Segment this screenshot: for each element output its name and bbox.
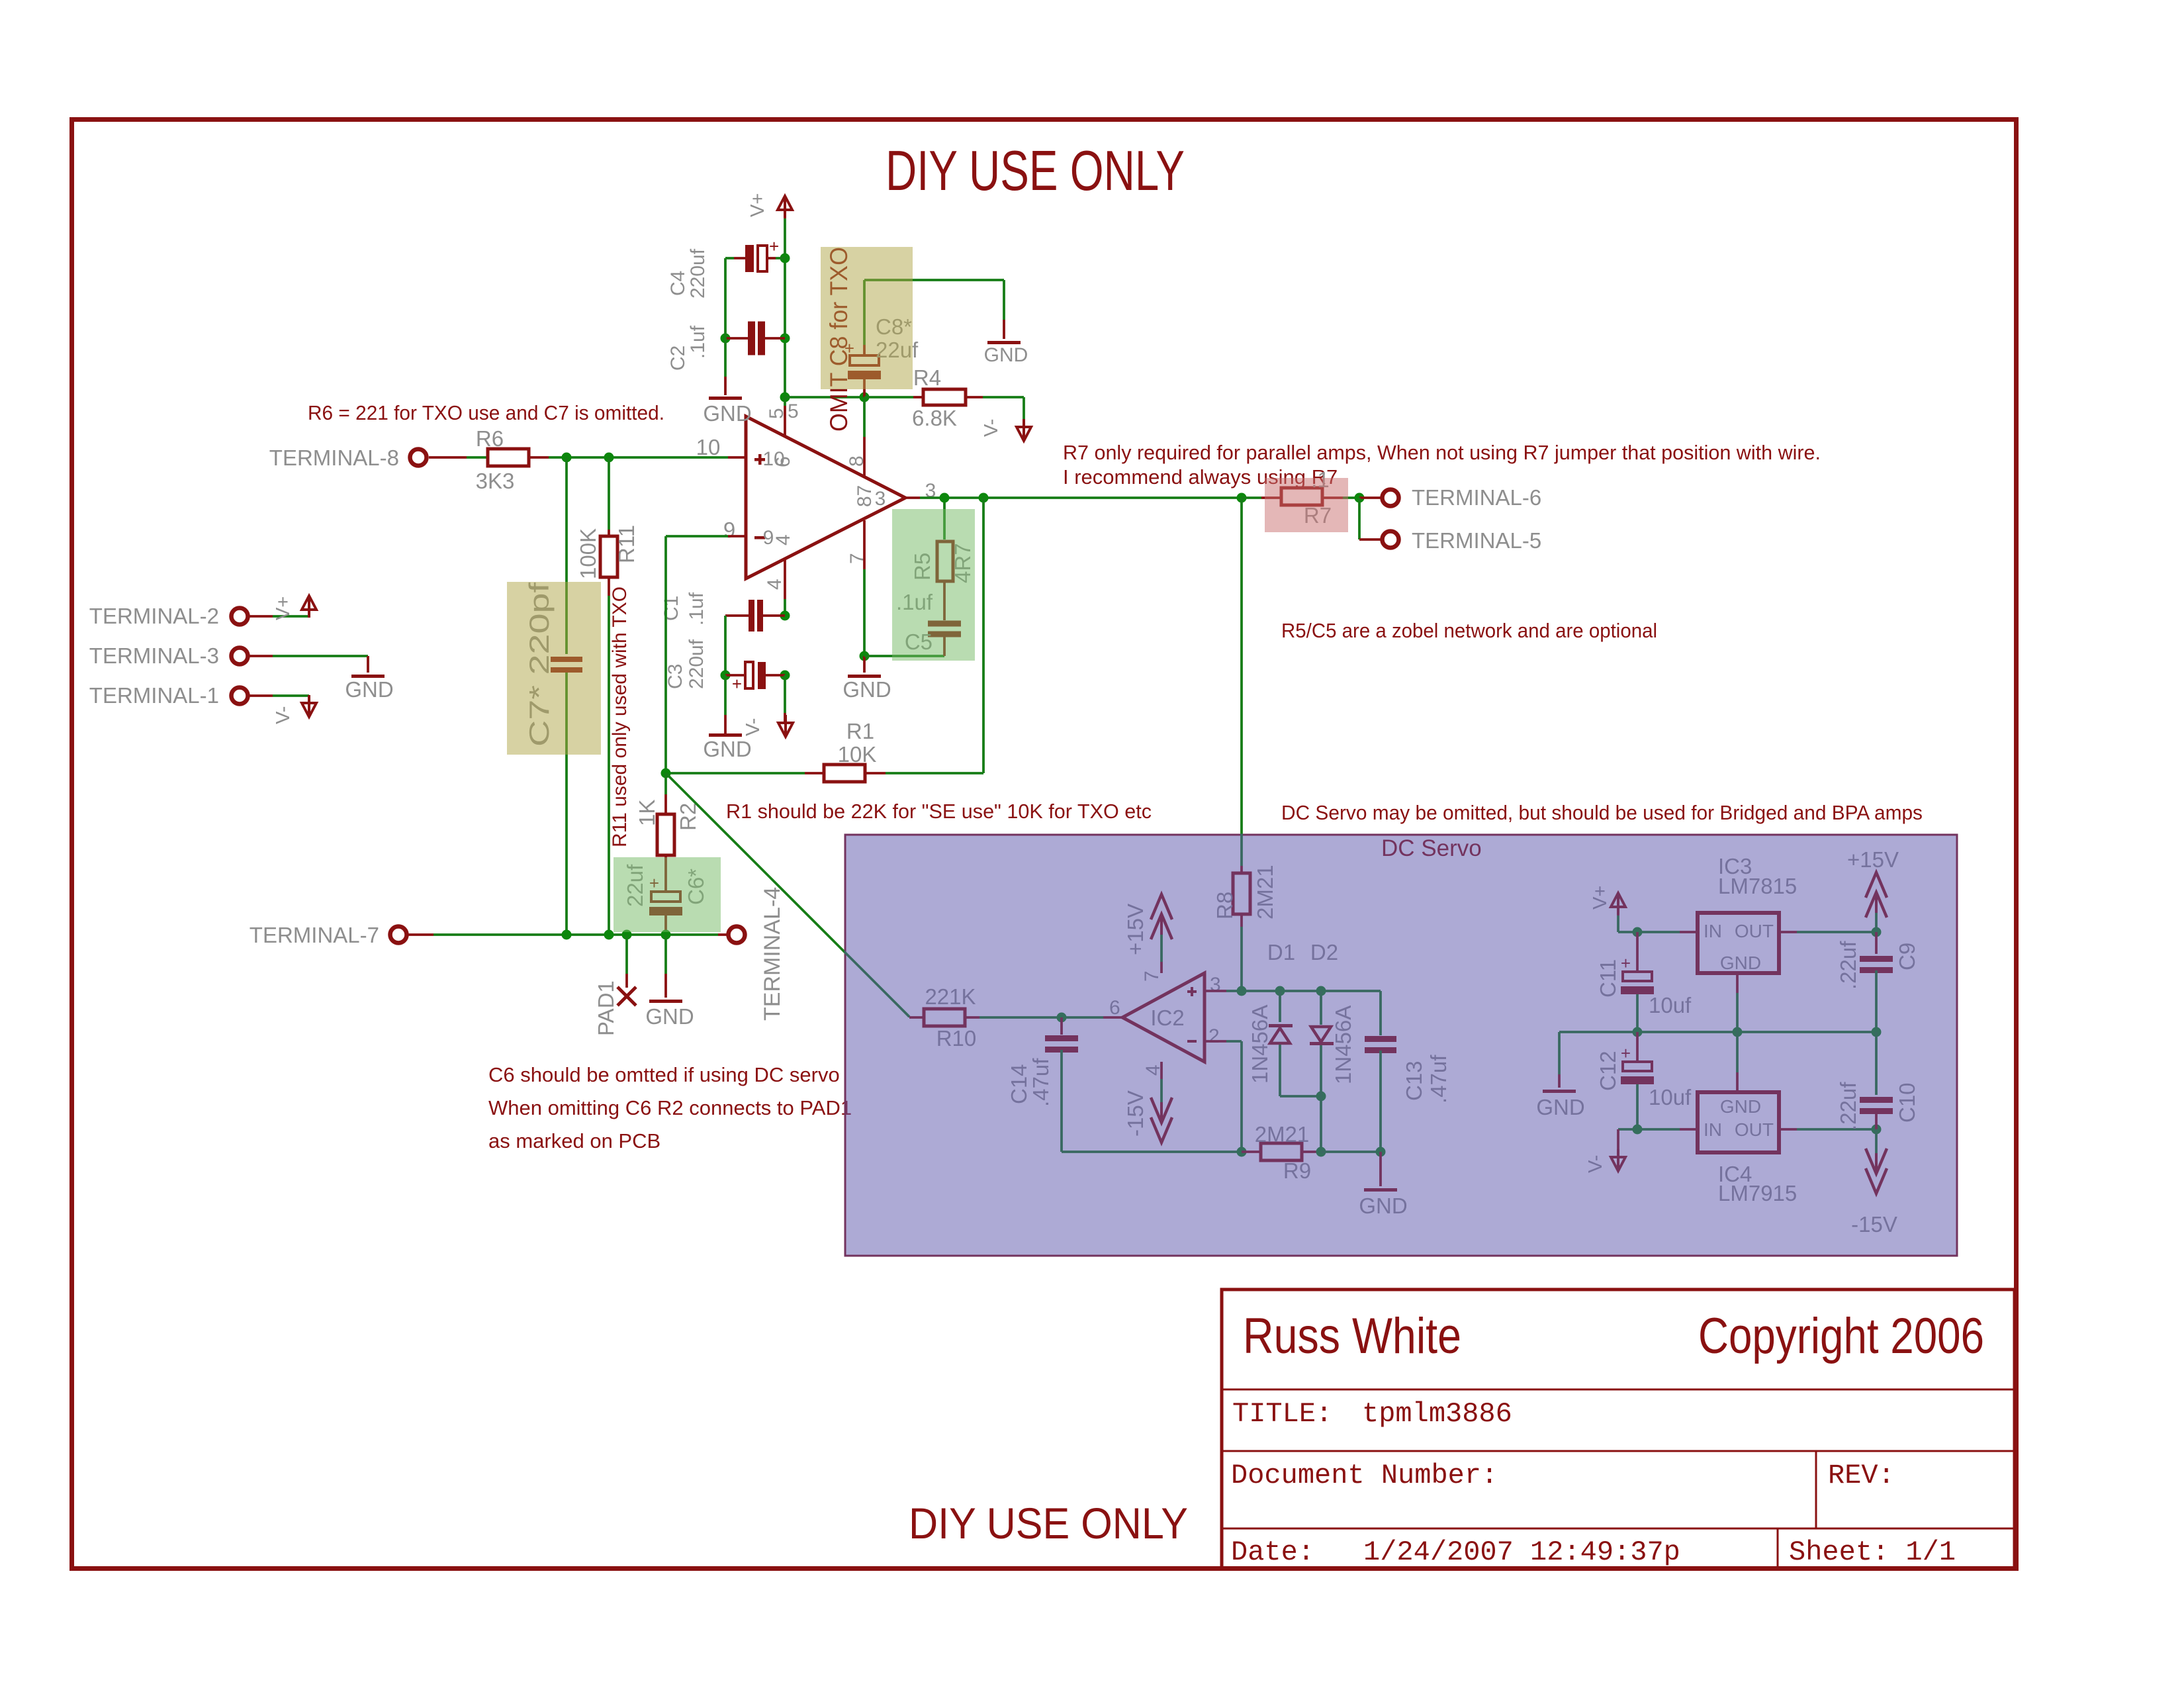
svg-text:GND: GND bbox=[345, 677, 393, 702]
wire C1 left rail bbox=[724, 616, 727, 675]
V- symbol T1 bbox=[308, 696, 310, 703]
terminal TERMINAL-8 bbox=[410, 449, 427, 466]
ground GND servo bbox=[1379, 1152, 1382, 1186]
capacitor C7 bbox=[551, 657, 582, 662]
svg-text:100K: 100K bbox=[576, 528, 600, 579]
junction pin3 D2 bbox=[1316, 986, 1326, 996]
svg-text:DC Servo may be omitted, but s: DC Servo may be omitted, but should be u… bbox=[1281, 801, 1923, 824]
wire C7 to bottom rail bbox=[565, 673, 568, 935]
ground GND rail bbox=[1543, 1090, 1576, 1093]
wire IC4 gnd pin bbox=[1736, 1072, 1739, 1092]
terminal TERMINAL-2 bbox=[232, 608, 248, 625]
junction out C9 bbox=[1872, 927, 1882, 937]
junction pin7 gnd bbox=[860, 651, 870, 661]
junction D2 bottom bbox=[1316, 1092, 1326, 1102]
svg-text:Russ White: Russ White bbox=[1243, 1308, 1461, 1364]
junction out servo bbox=[1237, 493, 1247, 503]
capacitor C13 bbox=[1365, 1036, 1396, 1042]
capacitor C2 .1uf bbox=[725, 337, 749, 340]
svg-text:GND: GND bbox=[984, 344, 1028, 366]
svg-text:Sheet: 1/1: Sheet: 1/1 bbox=[1789, 1536, 1956, 1568]
+15V arrow out bbox=[1875, 913, 1878, 932]
wire R2 top bbox=[664, 773, 667, 794]
wire D1 bottom bbox=[1279, 1045, 1281, 1096]
junction fb R9 bbox=[1237, 1147, 1247, 1157]
svg-text:REV:: REV: bbox=[1828, 1460, 1895, 1491]
V+ symbol servo bbox=[1611, 893, 1625, 907]
border frame bbox=[72, 120, 2017, 1569]
svg-text:DIY USE ONLY: DIY USE ONLY bbox=[909, 1499, 1188, 1548]
junction rail C7 bbox=[562, 930, 572, 940]
V- symbol servo bbox=[1617, 1129, 1619, 1155]
wire V- to IC4 bbox=[1618, 1128, 1680, 1131]
svg-text:5: 5 bbox=[788, 400, 799, 422]
wire pin4 down bbox=[784, 558, 786, 599]
resistor R10 bbox=[924, 1009, 965, 1026]
terminal TERMINAL-6 bbox=[1383, 490, 1399, 506]
junction out fb bbox=[979, 493, 989, 503]
wire R4 to V- bbox=[966, 396, 983, 399]
wire bottom rail bbox=[408, 933, 433, 936]
junction C11 top bbox=[1633, 927, 1643, 937]
svg-text:V-: V- bbox=[743, 718, 764, 736]
svg-text:GND: GND bbox=[645, 1004, 694, 1029]
wire rail to GND bbox=[1558, 1032, 1561, 1074]
wire V+ to C8 node bbox=[785, 396, 864, 399]
resistor R9 bbox=[1242, 1150, 1261, 1153]
IC2 plus bbox=[1187, 990, 1197, 993]
V- symbol pin4 bbox=[778, 723, 793, 737]
svg-text:4: 4 bbox=[772, 534, 794, 545]
svg-text:TERMINAL-8: TERMINAL-8 bbox=[269, 445, 399, 470]
ground GND C2C4 bbox=[709, 397, 742, 400]
V+ symbol T2 bbox=[308, 611, 310, 616]
wire C3 left to GND bbox=[724, 675, 727, 715]
wire node B down to R11 bbox=[608, 457, 610, 530]
svg-text:C1: C1 bbox=[660, 596, 682, 621]
wire R1 row right bbox=[865, 772, 886, 774]
svg-text:R1 should be 22K for "SE use": R1 should be 22K for "SE use" 10K for TX… bbox=[726, 800, 1152, 823]
svg-text:R1: R1 bbox=[846, 719, 874, 743]
-15V arrow out bbox=[1875, 1129, 1878, 1153]
svg-text:tpmlm3886: tpmlm3886 bbox=[1362, 1398, 1512, 1430]
junction node B bbox=[604, 453, 614, 463]
resistor R7 bbox=[1242, 496, 1261, 499]
ground GND C6 bbox=[649, 1000, 682, 1003]
junction C14 bbox=[1057, 1013, 1067, 1023]
regulator IC3 bbox=[1698, 913, 1779, 973]
wire to T5 bbox=[1358, 498, 1361, 539]
terminal TERMINAL-7 bbox=[390, 927, 407, 943]
title block frame bbox=[1222, 1289, 2015, 1568]
junction C2 left bbox=[721, 334, 731, 344]
junction rail C9 bbox=[1872, 1027, 1882, 1037]
highlight C7 box bbox=[507, 582, 601, 755]
junction V+ pin5 bbox=[780, 393, 790, 402]
svg-text:V-: V- bbox=[981, 419, 1002, 437]
svg-text:+: + bbox=[732, 674, 742, 694]
svg-text:R6 = 221 for TXO use and C7 is: R6 = 221 for TXO use and C7 is omitted. bbox=[308, 401, 664, 424]
wire IC3 gnd pin bbox=[1736, 973, 1739, 993]
svg-text:4: 4 bbox=[764, 579, 786, 590]
junction C3 right bbox=[780, 671, 790, 680]
wire R11 to bottom rail bbox=[608, 577, 610, 596]
svg-text:PAD1: PAD1 bbox=[594, 980, 618, 1036]
svg-text:R7 only required for parallel: R7 only required for parallel amps, When… bbox=[1063, 441, 1821, 464]
highlight DC servo box bbox=[844, 834, 1958, 1257]
svg-text:C2: C2 bbox=[667, 346, 689, 371]
svg-text:V-: V- bbox=[273, 706, 294, 724]
svg-text:+: + bbox=[769, 236, 779, 256]
svg-text:TERMINAL-4: TERMINAL-4 bbox=[760, 887, 785, 1021]
svg-text:TERMINAL-2: TERMINAL-2 bbox=[89, 604, 219, 628]
highlight R5C5 box bbox=[892, 509, 975, 661]
svg-text:R4: R4 bbox=[913, 365, 941, 390]
wire R2 to C6 bbox=[664, 855, 667, 893]
highlight C6 box bbox=[614, 857, 721, 932]
wire servo fb rail bbox=[1062, 1150, 1242, 1153]
wire C8 top to GND bbox=[863, 280, 866, 345]
svg-text:When omitting C6 R2 connects t: When omitting C6 R2 connects to PAD1 bbox=[488, 1096, 852, 1119]
junction R2 top bbox=[661, 769, 671, 778]
svg-text:R2: R2 bbox=[676, 803, 700, 831]
terminal TERMINAL-3 bbox=[232, 648, 248, 665]
svg-text:Date:: Date: bbox=[1231, 1536, 1314, 1568]
svg-text:1/24/2007 12:49:37p: 1/24/2007 12:49:37p bbox=[1363, 1536, 1680, 1568]
wire R5 to C5 bbox=[943, 581, 946, 620]
regulator IC4 bbox=[1698, 1092, 1779, 1152]
svg-text:V+: V+ bbox=[273, 596, 294, 620]
+15V arrow IC2 bbox=[1151, 894, 1172, 919]
svg-text:87: 87 bbox=[854, 485, 876, 507]
wire V+ to IC3 bbox=[1617, 915, 1619, 932]
svg-text:R11: R11 bbox=[614, 525, 639, 563]
resistor R6 bbox=[488, 449, 529, 466]
diode D2 bbox=[1320, 991, 1322, 1025]
svg-text:6: 6 bbox=[772, 456, 794, 467]
svg-text:.1uf: .1uf bbox=[686, 592, 707, 626]
V+ symbol top bbox=[778, 196, 792, 210]
junction pin3 D1 bbox=[1275, 986, 1285, 996]
wire T2 to V+ bbox=[249, 615, 273, 618]
resistor R1 bbox=[824, 765, 865, 782]
junction node A bbox=[562, 453, 572, 463]
wire IC4 out bbox=[1779, 1128, 1797, 1131]
svg-text:TERMINAL-5: TERMINAL-5 bbox=[1412, 528, 1541, 553]
V- symbol R4 bbox=[1017, 427, 1031, 441]
svg-text:V+: V+ bbox=[747, 193, 768, 217]
junction pin3 R8 bbox=[1237, 986, 1247, 996]
wire IC3 out bbox=[1779, 931, 1797, 933]
wire R8 to pin3 bbox=[1240, 914, 1243, 927]
svg-text:C6 should be omtted if using D: C6 should be omtted if using DC servo bbox=[488, 1063, 840, 1086]
svg-text:TERMINAL-6: TERMINAL-6 bbox=[1412, 485, 1541, 510]
wire feedback down bbox=[982, 498, 985, 773]
junction pin4 C1 bbox=[780, 611, 790, 621]
wire D2 to rail bbox=[1320, 1045, 1322, 1096]
resistor R2 bbox=[657, 814, 674, 855]
ground GND pin7 bbox=[863, 656, 866, 673]
svg-text:GND: GND bbox=[842, 677, 891, 702]
resistor R4 bbox=[864, 396, 913, 399]
wire R9 to C13 bbox=[1321, 1150, 1381, 1153]
ground GND C8 bbox=[987, 341, 1021, 344]
wire C3 right to V- bbox=[784, 675, 786, 713]
wire IC2 pin2 bbox=[1205, 1040, 1226, 1043]
diode D1 bbox=[1279, 991, 1281, 1022]
svg-text:TERMINAL-3: TERMINAL-3 bbox=[89, 643, 219, 668]
capacitor C3 220uf bbox=[725, 674, 745, 677]
terminal TERMINAL-5 bbox=[1383, 532, 1399, 548]
resistor R5 bbox=[937, 541, 953, 581]
junction C13 gnd bbox=[1376, 1147, 1386, 1157]
wire T1 to V- bbox=[249, 694, 273, 697]
wire R1 row left bbox=[666, 772, 805, 774]
wire pin9 bbox=[728, 535, 746, 538]
pad PAD1 cross bbox=[617, 987, 636, 1006]
wire PAD1 bbox=[625, 935, 628, 974]
svg-text:R11 used only used with TXO: R11 used only used with TXO bbox=[609, 586, 631, 847]
opamp plus sign bbox=[754, 458, 765, 461]
svg-text:R5/C5 are a zobel network and: R5/C5 are a zobel network and are option… bbox=[1281, 619, 1657, 642]
wire diagonal to R10 bbox=[666, 773, 909, 1017]
capacitor C9 bbox=[1875, 932, 1878, 954]
junction V+ C2 bbox=[780, 334, 790, 344]
wire T8 to R6 bbox=[429, 456, 467, 459]
svg-text:10: 10 bbox=[696, 435, 721, 459]
resistor R11 bbox=[600, 536, 617, 577]
svg-text:C3: C3 bbox=[664, 664, 686, 689]
svg-text:TERMINAL-1: TERMINAL-1 bbox=[89, 683, 219, 708]
svg-text:Document Number:: Document Number: bbox=[1231, 1460, 1498, 1491]
DC Servo box border bbox=[845, 835, 1957, 1256]
svg-text:GND: GND bbox=[703, 401, 751, 426]
wire output to R5 bbox=[943, 498, 946, 539]
wire C6 gnd bbox=[664, 935, 667, 974]
svg-text:1K: 1K bbox=[635, 800, 659, 826]
svg-text:3K3: 3K3 bbox=[476, 469, 515, 493]
junction rail C6 bbox=[661, 930, 671, 940]
capacitor C4 220uf bbox=[725, 257, 734, 259]
junction rail gndpin bbox=[1733, 1027, 1743, 1037]
wire pin5 bbox=[784, 397, 786, 406]
svg-text:3: 3 bbox=[875, 488, 886, 510]
junction C3 left bbox=[721, 671, 731, 680]
capacitor C5 bbox=[928, 621, 961, 627]
svg-text:TITLE:: TITLE: bbox=[1232, 1398, 1332, 1430]
svg-text:Copyright 2006: Copyright 2006 bbox=[1698, 1308, 1984, 1364]
wire zobel bottom bbox=[864, 655, 944, 657]
svg-text:220uf: 220uf bbox=[687, 248, 709, 299]
wire C-left rail to GND bbox=[724, 258, 727, 377]
junction rail C11 bbox=[1633, 1027, 1643, 1037]
ground GND T3 bbox=[351, 675, 385, 678]
junction out R5 bbox=[940, 493, 950, 503]
highlight R7 box bbox=[1265, 478, 1348, 532]
wire node A down to C7 bbox=[565, 457, 568, 654]
capacitor C12 bbox=[1636, 1032, 1639, 1062]
resistor R8 bbox=[1233, 873, 1250, 914]
IC2 minus bbox=[1187, 1040, 1197, 1043]
svg-text:as marked on PCB: as marked on PCB bbox=[488, 1129, 660, 1152]
svg-text:.1uf: .1uf bbox=[687, 325, 709, 359]
junction V+ C4 bbox=[780, 254, 790, 263]
op-amp IC2 bbox=[1122, 973, 1205, 1062]
wire V+ rail bbox=[784, 218, 786, 397]
wire pin7 bbox=[863, 520, 866, 569]
svg-text:220uf: 220uf bbox=[686, 639, 707, 689]
capacitor C1 .1uf bbox=[725, 614, 749, 617]
wire output bbox=[905, 496, 920, 499]
junction C12 bottom bbox=[1633, 1125, 1643, 1135]
junction C8 node bbox=[860, 393, 870, 402]
svg-text:R6: R6 bbox=[476, 426, 504, 451]
junction T6 bbox=[1355, 493, 1365, 503]
highlight C8 box bbox=[821, 247, 913, 389]
svg-text:9: 9 bbox=[723, 518, 735, 542]
junction R9 right bbox=[1316, 1147, 1326, 1157]
ground GND C3 bbox=[709, 733, 742, 737]
wire T3 to GND bbox=[249, 655, 273, 657]
junction rail R11 bbox=[604, 930, 614, 940]
capacitor C14 bbox=[1060, 1017, 1063, 1035]
wire R6 to opamp +in bbox=[529, 456, 549, 459]
svg-text:TERMINAL-7: TERMINAL-7 bbox=[250, 923, 379, 947]
terminal TERMINAL-1 bbox=[232, 688, 248, 704]
svg-text:10K: 10K bbox=[838, 742, 877, 767]
svg-text:C4: C4 bbox=[667, 271, 689, 296]
wire IC2 -15V bbox=[1160, 1062, 1163, 1079]
svg-text:DIY USE ONLY: DIY USE ONLY bbox=[886, 140, 1185, 203]
wire R10 to IC2 bbox=[965, 1016, 979, 1019]
svg-text:6.8K: 6.8K bbox=[912, 406, 957, 430]
junction rail PAD1 bbox=[622, 930, 632, 940]
op-amp IC1 bbox=[746, 416, 905, 579]
wire to T6 bbox=[1359, 496, 1381, 499]
opamp minus sign bbox=[754, 536, 765, 539]
wire IC2 pin3 row bbox=[1205, 990, 1226, 992]
terminal TERMINAL-4 bbox=[729, 927, 745, 943]
capacitor C10 bbox=[1875, 1032, 1878, 1095]
wire IC2 +15V bbox=[1160, 962, 1163, 973]
capacitor C11 bbox=[1636, 932, 1639, 972]
junction out C10 bbox=[1872, 1125, 1882, 1135]
wire mid rail bbox=[1559, 1031, 1876, 1033]
wire servo feed down bbox=[1240, 498, 1243, 866]
wire pin8 bbox=[863, 397, 866, 437]
svg-text:GND: GND bbox=[703, 737, 751, 761]
-15V arrow IC2 bbox=[1151, 1117, 1172, 1143]
